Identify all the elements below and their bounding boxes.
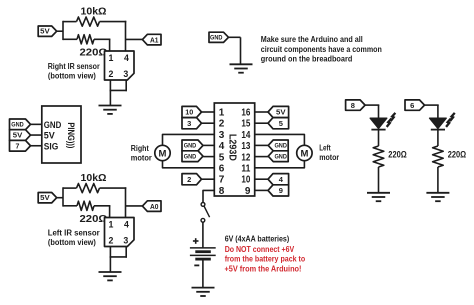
ground (LED 6) — [426, 192, 449, 194]
svg-text:2: 2 — [187, 175, 191, 184]
tag 2 (pin7) — [182, 174, 202, 185]
svg-text:GND: GND — [274, 144, 287, 150]
svg-text:L293D: L293D — [227, 134, 238, 161]
digital pin tag 6 (LED) — [405, 100, 425, 110]
tag 9 (pin9) — [268, 185, 289, 196]
GND tag (common ground) — [209, 32, 229, 42]
motor M left — [297, 145, 312, 160]
battery 6V plus sign — [193, 240, 199, 242]
svg-text:GND: GND — [184, 144, 197, 150]
svg-text:Do NOT connect +6V: Do NOT connect +6V — [225, 244, 295, 254]
digital pin tag 8 (LED) — [346, 100, 366, 110]
svg-text:10kΩ: 10kΩ — [81, 172, 107, 184]
svg-text:4: 4 — [219, 141, 225, 152]
wire vertical split between resistors — [62, 21, 64, 40]
ground (battery) — [192, 287, 215, 289]
svg-text:GND: GND — [11, 123, 24, 129]
LED emission arrows — [391, 114, 394, 121]
wire pin3 to right motor — [163, 134, 215, 145]
svg-text:1: 1 — [219, 108, 225, 119]
svg-text:(bottom view): (bottom view) — [48, 71, 96, 81]
svg-text:2: 2 — [109, 69, 114, 79]
svg-text:motor: motor — [131, 153, 153, 163]
svg-text:(bottom view): (bottom view) — [48, 237, 96, 247]
svg-text:5V: 5V — [40, 195, 50, 202]
svg-text:3: 3 — [123, 236, 128, 246]
battery BT1 plates — [190, 247, 216, 249]
svg-text:Right: Right — [131, 143, 149, 153]
svg-text:220Ω: 220Ω — [80, 47, 108, 59]
wire pin7 tag to PING SIG — [31, 145, 42, 147]
svg-text:220Ω: 220Ω — [80, 213, 108, 225]
ground (Left IR sensor) — [99, 271, 122, 273]
resistor 220Ω (Right IR sensor) — [63, 38, 77, 40]
GND tag (pin13) — [268, 140, 288, 151]
svg-text:+5V from the Arduino!: +5V from the Arduino! — [225, 263, 302, 273]
svg-text:from the battery pack to: from the battery pack to — [225, 254, 306, 264]
svg-text:Make sure the Arduino and all: Make sure the Arduino and all — [261, 34, 363, 44]
wire pin6 to right motor — [163, 161, 215, 168]
LED D6 (IR LED) — [430, 118, 447, 128]
svg-text:GND: GND — [44, 120, 62, 130]
wire battery to ground — [202, 259, 204, 287]
wire from 5V tag to split node — [57, 197, 63, 199]
wire 10k output to pin4 column — [100, 21, 127, 23]
wire from 5V tag to split node — [57, 30, 63, 32]
tag 3 (pin2) — [182, 118, 202, 129]
svg-text:7: 7 — [219, 175, 225, 186]
resistor 220Ω (LED 8) — [373, 146, 384, 167]
svg-text:5V: 5V — [44, 131, 55, 141]
motor M right — [155, 145, 170, 160]
wire vertical split between resistors — [62, 187, 64, 206]
wire gndtag-pin5 — [203, 156, 214, 158]
svg-text:1: 1 — [109, 220, 114, 230]
svg-text:14: 14 — [241, 130, 250, 141]
svg-text:11: 11 — [241, 164, 250, 175]
svg-text:5V: 5V — [40, 29, 50, 36]
svg-text:GND: GND — [184, 154, 197, 160]
svg-text:motor: motor — [319, 152, 340, 162]
svg-text:16: 16 — [241, 108, 250, 119]
GND tag (PING) — [10, 119, 31, 130]
svg-text:9: 9 — [279, 186, 283, 195]
connector PING))) body — [42, 106, 81, 163]
LED D8 (IR LED) — [370, 118, 387, 128]
wire tag to LED — [365, 104, 379, 106]
svg-text:8: 8 — [351, 101, 355, 110]
wire junction to analog tag — [126, 38, 143, 40]
ground (common ground note) — [230, 63, 253, 65]
svg-text:A1: A1 — [150, 35, 159, 44]
svg-text:220Ω: 220Ω — [388, 150, 407, 160]
svg-text:15: 15 — [241, 119, 250, 130]
wire pin10-tag4 — [255, 178, 268, 180]
svg-text:PING))): PING))) — [66, 122, 76, 148]
GND tag (pin12) — [268, 151, 288, 162]
resistor 220Ω (LED 6) — [433, 146, 444, 167]
svg-text:3: 3 — [219, 130, 225, 141]
svg-text:10: 10 — [241, 175, 250, 186]
svg-text:5: 5 — [219, 152, 225, 163]
wire resistor to ground — [437, 167, 439, 193]
svg-text:13: 13 — [241, 141, 250, 152]
svg-text:A0: A0 — [150, 202, 159, 211]
wire 220 output into pin1 — [94, 38, 110, 40]
svg-text:SIG: SIG — [44, 141, 59, 151]
wire tag10-pin1 — [202, 111, 215, 113]
svg-text:6: 6 — [219, 164, 225, 175]
wire switch to battery — [202, 222, 204, 248]
svg-text:GND: GND — [274, 154, 287, 160]
connector Right IR sensor (4-pin, bottom view) — [105, 51, 135, 80]
GND tag (pin4) — [182, 140, 203, 151]
wire tag to LED — [425, 104, 439, 106]
wire resistor to ground — [378, 167, 380, 193]
svg-text:10kΩ: 10kΩ — [81, 6, 107, 18]
wire pin9-tag9 — [255, 189, 268, 191]
LED emission arrows — [451, 114, 454, 121]
wire pin14 to left motor — [255, 134, 305, 145]
wire pin11 to left motor — [255, 161, 305, 168]
switch SW1 — [201, 203, 205, 207]
svg-text:4: 4 — [124, 53, 129, 63]
wire LED to resistor — [437, 130, 439, 146]
svg-text:2: 2 — [219, 119, 225, 130]
tag 10 (pin1) — [182, 106, 202, 117]
wire pin13-gnd — [255, 144, 269, 146]
svg-text:10: 10 — [185, 108, 193, 117]
svg-text:GND: GND — [210, 35, 223, 41]
wire 220 output into pin1 — [94, 205, 110, 207]
wire pin8 to switch — [203, 190, 214, 202]
5V tag (PING) — [10, 130, 31, 141]
svg-text:6: 6 — [410, 101, 414, 110]
svg-text:5V: 5V — [276, 110, 286, 117]
svg-text:3: 3 — [187, 119, 191, 128]
tag 5 (pin15) — [268, 118, 289, 129]
svg-text:ground on the breadboard: ground on the breadboard — [261, 54, 353, 64]
wire gndtag-pin4 — [203, 144, 214, 146]
wire 5V tag to PING — [31, 134, 42, 136]
wire tag2-pin7 — [202, 178, 215, 180]
battery minus sign — [194, 264, 199, 266]
resistor 220Ω (Left IR sensor) — [63, 205, 77, 207]
wire junction to analog tag — [126, 205, 143, 207]
ground (Right IR sensor) — [99, 105, 122, 107]
wire pins 2,3 to ground — [109, 80, 111, 91]
wire pins 2,3 to ground — [109, 247, 111, 258]
svg-text:6V (4xAA batteries): 6V (4xAA batteries) — [225, 234, 290, 244]
5V tag (pin16) — [268, 106, 289, 117]
wire LED to resistor — [378, 130, 380, 146]
svg-text:220Ω: 220Ω — [448, 150, 467, 160]
wire pin15-tag5 — [255, 122, 268, 124]
svg-text:2: 2 — [109, 236, 114, 246]
svg-text:1: 1 — [109, 53, 114, 63]
svg-text:3: 3 — [123, 69, 128, 79]
5V supply tag (Right IR sensor) — [38, 26, 57, 36]
svg-text:8: 8 — [219, 186, 225, 197]
svg-text:4: 4 — [124, 220, 129, 230]
wire tag3-pin2 — [202, 122, 215, 124]
tag 4 (pin10) — [268, 174, 289, 185]
svg-text:circuit components have a comm: circuit components have a common — [261, 44, 382, 54]
IC U1 L293D body — [214, 103, 254, 196]
wire pin16-5V — [255, 111, 268, 113]
analog input tag A1 — [142, 34, 161, 45]
ground (LED 8) — [367, 192, 390, 194]
5V supply tag (Left IR sensor) — [38, 193, 57, 203]
svg-text:M: M — [159, 148, 167, 159]
digital pin 7 tag (PING SIG) — [10, 140, 31, 151]
svg-text:M: M — [300, 148, 308, 159]
GND tag (pin5) — [182, 151, 203, 162]
svg-text:12: 12 — [241, 152, 250, 163]
resistor 10kΩ (Left IR sensor) — [63, 187, 77, 189]
wire pin12-gnd — [255, 156, 269, 158]
wire 10k output to pin4 column — [100, 187, 127, 189]
svg-text:9: 9 — [245, 186, 251, 197]
connector Left IR sensor (4-pin, bottom view) — [105, 218, 135, 247]
svg-text:5V: 5V — [13, 133, 23, 140]
wire GND tag to PING — [31, 123, 42, 125]
wire GND tag to ground — [228, 36, 240, 38]
analog input tag A0 — [142, 201, 161, 212]
svg-text:5: 5 — [279, 119, 283, 128]
svg-text:7: 7 — [16, 143, 20, 150]
resistor 10kΩ (Right IR sensor) — [63, 21, 77, 23]
